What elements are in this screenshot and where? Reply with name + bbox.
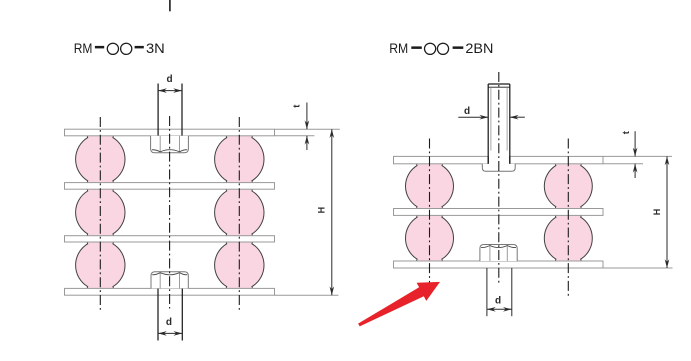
svg-text:RM: RM (74, 40, 93, 56)
svg-text:d: d (464, 106, 470, 117)
svg-text:H: H (652, 209, 662, 216)
svg-text:2BN: 2BN (465, 40, 493, 56)
svg-text:3N: 3N (146, 40, 165, 56)
svg-text:d: d (166, 74, 172, 85)
svg-text:RM: RM (389, 40, 408, 56)
svg-text:H: H (316, 207, 326, 214)
svg-text:d: d (495, 295, 501, 306)
svg-text:d: d (166, 317, 172, 328)
